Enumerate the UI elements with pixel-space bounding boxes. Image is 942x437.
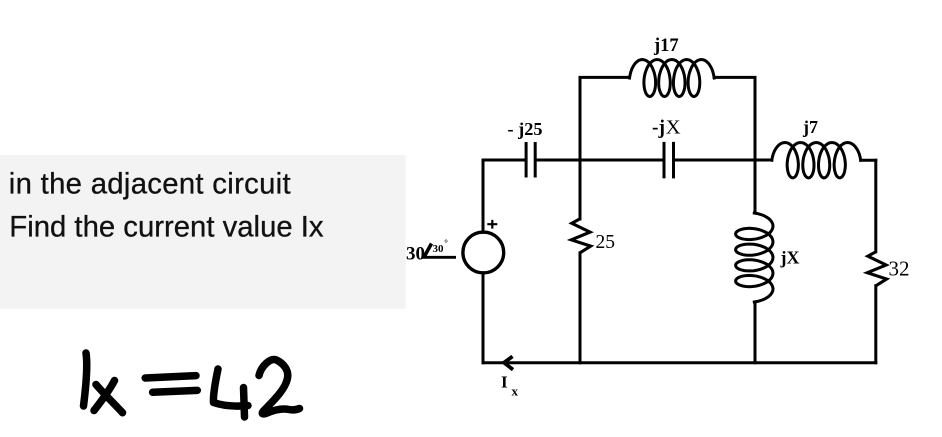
svg-text:°: ° <box>444 238 448 248</box>
svg-text:x: x <box>512 384 519 399</box>
svg-text:- j25: - j25 <box>508 119 543 139</box>
svg-text:I: I <box>501 373 508 392</box>
svg-text:30: 30 <box>406 244 425 265</box>
svg-text:jX: jX <box>780 248 800 268</box>
svg-text:Find the current value Ix: Find the current value Ix <box>9 211 324 244</box>
svg-text:30: 30 <box>433 243 445 255</box>
svg-text:j17: j17 <box>653 36 679 56</box>
svg-text:32: 32 <box>889 257 910 281</box>
svg-text:X: X <box>666 117 681 139</box>
svg-text:-j: -j <box>652 118 665 139</box>
svg-text:j7: j7 <box>802 117 818 137</box>
svg-text:25: 25 <box>596 232 616 253</box>
svg-text:in the adjacent circuit: in the adjacent circuit <box>9 168 291 201</box>
